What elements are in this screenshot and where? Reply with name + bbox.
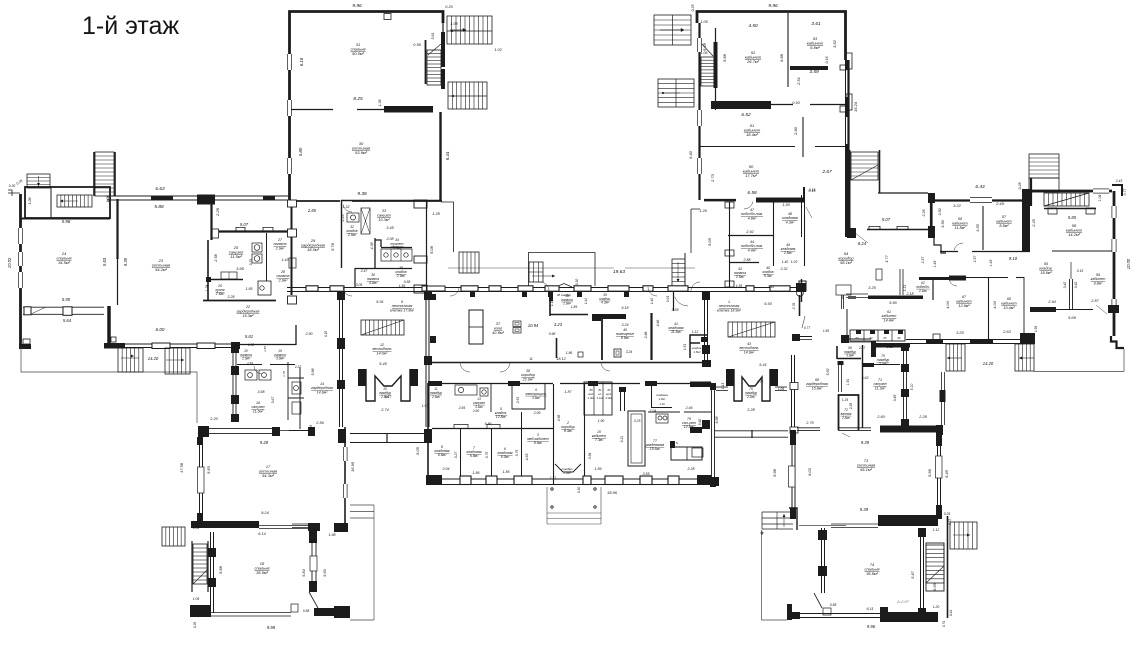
leader 8.24 [855,233,868,243]
pilaster vl a [337,291,345,300]
svg-text:3.50: 3.50 [941,219,945,227]
svg-text:2.9м²: 2.9м² [278,278,288,282]
svg-text:6.63: 6.63 [155,186,165,192]
protrusion wall [941,372,943,425]
svg-text:1.02: 1.02 [494,48,502,52]
svg-text:11.6м²: 11.6м² [253,409,264,413]
svg-text:3.61: 3.61 [811,21,821,27]
stair S1 top [447,16,492,44]
pilaster vr b [424,356,432,365]
box 32 [347,213,359,222]
wing-left notch [8,190,20,196]
wall 73 bottom thin [831,523,878,525]
pilaster 68 b [790,427,798,433]
wall 36 walls [355,268,412,270]
door arc 67 [950,281,958,286]
window 74 bottom [823,608,831,615]
svg-text:1.90: 1.90 [598,419,605,423]
wall 34 top [381,247,412,249]
svg-text:12.9м²: 12.9м² [958,304,970,308]
diag 74w [814,593,822,608]
corridor pilaster 2 [461,286,478,291]
svg-text:5.90: 5.90 [889,301,897,305]
svg-text:1.98: 1.98 [1034,326,1038,332]
connector corner blk [792,334,800,341]
corridor pilaster 4 [518,286,533,291]
window topright left c [697,38,702,52]
bar 54 [848,296,856,299]
svg-text:кабинет: кабинет [952,221,967,225]
svg-text:1.43: 1.43 [282,258,289,262]
svg-text:3.20: 3.20 [956,330,965,335]
pilaster lbw a [288,200,297,207]
wall 17 east [344,427,346,530]
wall room23 right [210,196,212,240]
window west c [18,252,23,266]
svg-text:2.5м²: 2.5м² [735,275,745,279]
wall 73 west [791,431,793,514]
tambour 10 left pil [358,369,366,386]
pilaster r876 b [487,424,500,428]
svg-text:1.65: 1.65 [263,346,267,352]
svg-text:9.39: 9.39 [860,507,869,512]
pilaster 1920 c [231,395,239,404]
svg-text:9.28: 9.28 [260,440,269,445]
svg-text:2.0м²: 2.0м² [746,395,756,399]
svg-text:2.94: 2.94 [1047,300,1055,304]
svg-text:17.58: 17.58 [179,462,184,473]
svg-text:2.26: 2.26 [849,403,853,411]
svg-text:7.3м²: 7.3м² [595,438,604,442]
wall cb top thick [428,381,442,386]
wall 70 strip top [844,338,871,340]
svg-text:1.17: 1.17 [385,395,391,399]
fixt 37 [513,321,521,327]
svg-text:2.0м²: 2.0м² [347,233,357,237]
wall 60 east [1023,277,1025,339]
svg-text:1.55: 1.55 [399,284,406,288]
svg-text:1.57: 1.57 [422,404,429,408]
wall 73 bottom thick [878,515,938,526]
pilaster v2 e [711,477,719,486]
svg-text:26.7м²: 26.7м² [746,59,760,64]
svg-text:2.28: 2.28 [215,207,220,217]
svg-text:9.35: 9.35 [123,257,128,266]
svg-text:2.88: 2.88 [644,332,648,340]
svg-text:2.04: 2.04 [442,467,450,471]
pilaster r876 a [454,424,468,428]
svg-text:0.25: 0.25 [691,5,695,12]
svg-text:50.0м²: 50.0м² [352,51,365,56]
door diag 45 [806,207,812,218]
window room24 box b [63,307,72,316]
pilaster 1920 a [231,343,239,353]
svg-text:5.64: 5.64 [63,318,72,323]
svg-text:1.86: 1.86 [473,471,480,475]
stair S19 diag [926,566,944,583]
svg-text:0.28: 0.28 [1018,183,1022,190]
pilaster 17w c [197,513,203,521]
stair S4 top [654,15,691,45]
connector door diag [802,316,805,328]
wall 13 east [490,384,492,412]
stair C3 elevator [672,259,685,286]
svg-text:3.42: 3.42 [1063,282,1067,289]
svg-text:1.03: 1.03 [791,260,798,264]
svg-text:6.52: 6.52 [741,112,751,118]
wall 17 west [199,442,201,521]
svg-text:2.23: 2.23 [341,215,345,223]
svg-text:9.8м²: 9.8м² [1094,281,1103,285]
wall right block60 [845,60,850,70]
stair 1 hatch [728,322,775,337]
vest-right west wall [704,291,706,366]
svg-text:18.0м²: 18.0м² [307,247,320,252]
svg-text:2.76: 2.76 [792,303,796,311]
wall 74 bottom [800,613,880,615]
dots porch lc [761,532,763,534]
radiator 68 [838,362,840,392]
svg-text:3.77: 3.77 [885,254,889,262]
svg-text:2.06: 2.06 [533,411,541,415]
svg-text:3.95: 3.95 [236,266,245,271]
pilaster vr a [424,291,432,300]
svg-text:5.92: 5.92 [826,369,830,376]
svg-text:2.90: 2.90 [305,332,313,336]
furn 54 bench [868,296,923,300]
svg-text:4.38: 4.38 [370,243,374,250]
svg-text:18.96: 18.96 [607,490,618,495]
svg-text:5.80: 5.80 [298,147,303,156]
svg-text:8.24: 8.24 [858,241,867,246]
rwing notch [933,334,940,340]
wall 72 box [839,395,859,430]
connector wall down [799,295,801,316]
porch 73 arrow [783,514,785,527]
svg-text:14.2м²: 14.2м² [1068,232,1081,237]
cb bottom pilaster 6 [668,476,679,485]
svg-text:6.00: 6.00 [156,327,165,332]
shower 33 [361,208,370,234]
wall 47 west [729,202,731,287]
tambour 75 shape [734,369,770,401]
svg-text:5.81: 5.81 [245,334,253,339]
corridor pilaster 6 [574,286,591,291]
door arc 56 [954,243,963,250]
svg-text:9.24: 9.24 [261,510,270,515]
stair S7 walls [93,152,95,196]
tambour 75 right pil [770,369,778,386]
block 74w b [818,566,827,576]
wall 74 sw [787,604,792,620]
svg-text:3.59: 3.59 [809,69,819,75]
stair 9 diag [361,320,404,335]
left block east wall [426,200,428,293]
svg-text:0.98: 0.98 [549,332,556,336]
wall rooms52-51 thick [711,101,771,109]
svg-text:6.0м²: 6.0м² [501,455,510,459]
svg-text:2.28: 2.28 [227,295,235,299]
wc box corr1 [692,448,703,457]
svg-text:1.3м²: 1.3м² [588,396,596,400]
svg-text:2.2м²: 2.2м² [562,471,571,475]
corridor pilaster 11 [770,286,790,291]
svg-text:2.9м²: 2.9м² [241,357,251,361]
stair C1 [459,252,479,273]
svg-text:10.4м²: 10.4м² [1003,306,1015,310]
svg-text:1.55: 1.55 [736,284,743,288]
svg-text:1.05: 1.05 [193,597,200,601]
rwing NE corner [1112,185,1122,196]
corridor pilaster 10 [746,286,754,291]
door arc 29 [343,205,352,212]
svg-text:2.46: 2.46 [685,406,693,410]
corridor corner L [422,286,445,291]
svg-text:3.49: 3.49 [893,395,897,402]
furn 54 box [876,269,882,280]
wall 73 top corner [880,426,941,433]
svg-text:5.85: 5.85 [1068,215,1077,220]
stair S13 landing [1029,178,1059,192]
wall stair19 east [947,516,949,618]
svg-text:2.70: 2.70 [805,421,814,425]
stair 1 diag [728,322,775,337]
svg-text:2.93: 2.93 [767,285,775,289]
pilaster lbe b [414,256,427,263]
svg-text:14.9м²: 14.9м² [317,390,328,394]
svg-text:2.63: 2.63 [1002,329,1012,334]
small rooms 80-82 [584,382,612,415]
svg-text:9.96: 9.96 [768,3,778,9]
svg-text:5.65: 5.65 [933,582,937,590]
svg-text:А-2.97: А-2.97 [896,599,910,604]
wing-left west wall [19,194,22,345]
porch cb left dots [551,488,553,490]
stair S18 diag [193,570,207,584]
wall 19/20 bottom [237,364,262,366]
svg-text:2.43: 2.43 [1115,179,1123,183]
svg-text:2.18: 2.18 [906,292,914,296]
window 73e a [936,434,942,446]
rwing SE corner [1111,336,1124,348]
svg-text:2.65: 2.65 [458,406,466,410]
porch 73 steps [762,512,793,529]
rwing east wall [1113,191,1116,336]
wall 44 top [728,235,773,237]
pilaster v2 a [702,291,710,300]
svg-text:1.53: 1.53 [247,361,253,365]
svg-text:2.9м²: 2.9м² [396,274,406,278]
svg-text:1.34: 1.34 [550,300,554,306]
corridor top line [287,287,806,289]
svg-text:5.07: 5.07 [240,222,249,227]
pilaster v2 b [702,345,710,354]
rwing bottom wall [906,339,1034,341]
svg-text:1.75: 1.75 [282,371,286,377]
svg-text:6.58: 6.58 [747,190,757,196]
corridor stem 3 [577,291,582,297]
wall 54 stub [846,309,848,339]
stair S12 exterior [165,348,190,374]
corridor bottom line [287,291,806,293]
cb bottom pilaster 1 [486,476,497,485]
svg-text:5.41: 5.41 [759,363,766,367]
wall room24 bottom [23,306,104,308]
svg-text:4.04: 4.04 [946,301,950,308]
svg-text:54.2м²: 54.2м² [155,267,168,272]
svg-text:4.46: 4.46 [656,320,660,327]
svg-text:1.12: 1.12 [933,528,940,532]
stair S7 vert [95,152,114,196]
svg-text:1.13: 1.13 [721,383,725,389]
tiny rooms row [850,330,905,341]
svg-text:1.12: 1.12 [692,330,698,334]
wall room29 right [341,200,343,268]
svg-text:16.95: 16.95 [350,461,355,472]
svg-text:4.3м²: 4.3м² [601,301,610,305]
wall right long [847,60,849,237]
corridor pilaster 7 [608,286,629,291]
stair S20 ext [950,522,977,549]
window rwe c [1112,299,1117,312]
svg-text:1.86: 1.86 [566,351,573,355]
door arc 47 [744,202,753,209]
sink 16a [245,370,257,380]
svg-text:3.9м²: 3.9м² [846,354,855,358]
wall topright left [698,23,700,200]
gallery block b [197,195,215,205]
svg-text:1.06: 1.06 [701,51,708,55]
wall room30 bottom [291,200,340,202]
svg-text:1.89: 1.89 [571,305,577,309]
wing bottom ext [232,344,296,346]
svg-text:12.8м²: 12.8м² [496,415,507,419]
window 17e b [343,484,348,498]
room 42 box [690,335,707,358]
svg-text:0.58: 0.58 [830,603,837,607]
corridor pilaster 1 [330,286,344,291]
room 40 west wall [601,319,603,360]
svg-text:2.47: 2.47 [360,269,368,273]
svg-text:6.14: 6.14 [258,532,265,536]
wall rooms876 top [432,428,553,430]
pilaster 37w a [430,294,436,300]
svg-text:1.75: 1.75 [757,380,763,384]
svg-text:1.98: 1.98 [329,533,336,537]
wall 44 bottom [729,262,759,264]
svg-text:2.74: 2.74 [380,408,388,412]
wall 70/71 divider [862,364,900,366]
svg-text:2.8м²: 2.8м² [841,416,851,420]
svg-text:3.55: 3.55 [643,472,650,476]
corridor pilaster 3 [489,286,501,291]
wall 3 east [553,384,555,484]
svg-text:5.88: 5.88 [722,53,727,62]
svg-text:18.4м²: 18.4м² [746,132,759,137]
svg-text:0.74: 0.74 [942,621,946,627]
wall 25/26 divider [208,279,243,281]
wall 67 top [949,276,966,281]
room 38b палата walls [550,295,588,316]
svg-text:5.82: 5.82 [698,419,702,426]
svg-text:0.30: 0.30 [9,184,16,188]
svg-text:2.93: 2.93 [516,397,520,405]
svg-text:9.10: 9.10 [1009,256,1018,261]
svg-text:4.04: 4.04 [993,301,997,308]
gallery2 corner [928,193,935,203]
svg-text:1.8м²: 1.8м² [694,350,702,354]
diag 18e [309,592,318,608]
svg-text:42.8м²: 42.8м² [492,330,505,335]
svg-text:2.49: 2.49 [995,201,1005,206]
stair S14 diag [1044,193,1089,206]
svg-text:2.51: 2.51 [796,77,801,86]
svg-text:15.8м²: 15.8м² [812,386,823,390]
wall 74 west [821,528,823,593]
svg-text:3.9м²: 3.9м² [276,357,285,361]
wall 6/3 divider [521,412,523,480]
wall 62 T [919,277,949,280]
wall 2 east [584,384,586,484]
wall right block97 [845,97,850,117]
stair S17 ext [162,527,185,546]
svg-text:5.61: 5.61 [431,33,435,40]
svg-text:2.57: 2.57 [973,256,977,264]
svg-text:54.3м²: 54.3м² [262,473,275,478]
corridor stem 2 [548,291,553,297]
svg-text:0.15: 0.15 [809,188,816,192]
porch 18 lines [350,505,374,620]
stair S18 vert [193,544,207,584]
svg-text:2.9м²: 2.9м² [918,289,928,293]
block east wall [711,383,713,487]
svg-text:9.5м²: 9.5м² [534,441,543,445]
blk divider70 [862,363,874,367]
svg-text:9.3м²: 9.3м² [564,429,573,433]
wing bottom box b [197,343,215,349]
svg-text:2.90: 2.90 [793,126,798,136]
left block west wall lower [291,205,293,295]
wing-left bottom wall [125,343,240,345]
svg-text:10.3м²: 10.3м² [378,218,390,222]
corridor stem 0 [470,291,475,297]
corridor pilaster 9 [668,286,688,291]
wall 48 east [804,216,806,266]
cb bottom pilaster 3 [583,476,591,485]
pilaster g2 a [840,65,846,70]
svg-text:11.8м²: 11.8м² [955,226,967,230]
big rect 37 [469,310,483,344]
window rwe b [1112,239,1117,252]
tambour 10 right pil [410,369,418,386]
svg-text:1.91: 1.91 [846,379,850,386]
stair S12 arrow [166,359,184,361]
svg-text:3.75: 3.75 [485,452,489,459]
porch thin outline [21,347,197,423]
svg-text:2.67: 2.67 [821,169,832,175]
svg-text:гардеробная: гардеробная [237,309,260,313]
wall room53 bottom [790,66,828,70]
stair S5 [658,79,694,107]
svg-text:5.86: 5.86 [927,468,932,477]
svg-text:2.92: 2.92 [745,230,754,234]
svg-text:1.85: 1.85 [823,329,829,333]
svg-text:1.28: 1.28 [432,212,440,216]
svg-text:5.98: 5.98 [772,468,777,477]
wall right inner [845,60,847,237]
svg-text:3.9м²: 3.9м² [532,396,541,400]
wall 8/7 divider [460,428,462,480]
